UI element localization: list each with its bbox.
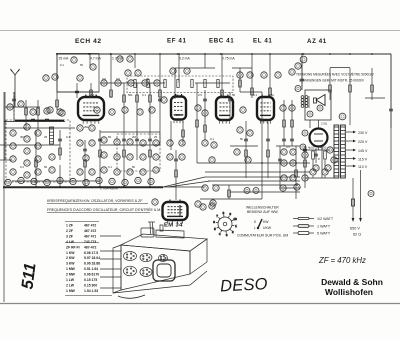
svg-text:ECH 42: ECH 42	[75, 38, 102, 45]
svg-text:KREISFREQUENZEN KW. OSZILLATOR: KREISFREQUENZEN KW. OSZILLATOR, VORKREIS…	[47, 199, 143, 203]
svg-text:TENSIONS MESURÉES AVEC VOLTMÈT: TENSIONS MESURÉES AVEC VOLTMÈTRE 5000Ω/V	[296, 72, 375, 77]
svg-text:2 LW: 2 LW	[66, 283, 75, 287]
svg-text:1 ZF: 1 ZF	[66, 224, 73, 228]
svg-text:4µ50: 4µ50	[308, 146, 315, 150]
svg-text:300: 300	[20, 135, 25, 139]
svg-text:145 V: 145 V	[358, 149, 368, 153]
svg-text:1 LW: 1 LW	[66, 278, 75, 282]
svg-text:1.54 1.53: 1.54 1.53	[84, 289, 98, 293]
svg-text:115 V: 115 V	[358, 157, 368, 161]
svg-text:50: 50	[44, 165, 48, 169]
svg-text:1 MW: 1 MW	[66, 289, 76, 293]
svg-text:EL 41: EL 41	[253, 38, 272, 45]
svg-text:62 Ω: 62 Ω	[353, 233, 361, 237]
svg-text:2 MW: 2 MW	[66, 273, 76, 277]
svg-text:COMMUTATEUR SUR POS. UM: COMMUTATEUR SUR POS. UM	[237, 234, 288, 238]
svg-text:EM 34: EM 34	[164, 223, 183, 229]
svg-text:50: 50	[108, 135, 112, 139]
svg-text:AZ 41: AZ 41	[307, 38, 327, 45]
svg-text:110 V: 110 V	[358, 165, 368, 169]
svg-text:50k: 50k	[128, 93, 133, 97]
svg-text:0.5: 0.5	[198, 93, 202, 97]
svg-text:4.7 mA: 4.7 mA	[90, 57, 101, 61]
svg-text:467 472: 467 472	[84, 229, 96, 233]
svg-text:ZF = 470 kHz: ZF = 470 kHz	[318, 256, 366, 265]
svg-text:1 WATT: 1 WATT	[317, 225, 331, 229]
svg-text:ZF RF FI: ZF RF FI	[66, 245, 80, 249]
svg-text:5.2 mA: 5.2 mA	[179, 57, 190, 61]
svg-text:WELLENSCHALTER: WELLENSCHALTER	[246, 206, 279, 210]
svg-text:0.15 300: 0.15 300	[84, 283, 97, 287]
svg-text:650 V: 650 V	[350, 227, 360, 231]
svg-text:3 ZF: 3 ZF	[66, 234, 73, 238]
svg-text:Dewald & Sohn: Dewald & Sohn	[321, 277, 383, 287]
svg-text:2 ZF: 2 ZF	[66, 229, 73, 233]
svg-text:2.5Ω: 2.5Ω	[321, 122, 327, 126]
svg-text:0.15 175: 0.15 175	[84, 278, 97, 282]
svg-text:50: 50	[232, 93, 236, 97]
svg-text:0.1: 0.1	[210, 137, 214, 141]
svg-text:25: 25	[146, 77, 150, 81]
svg-text:3 KW: 3 KW	[66, 262, 75, 266]
svg-text:0.1: 0.1	[253, 93, 257, 97]
svg-text:Wollishofen: Wollishofen	[325, 287, 373, 297]
svg-text:1.7mA 40mW: 1.7mA 40mW	[100, 187, 118, 191]
svg-text:25: 25	[154, 135, 158, 139]
svg-text:20k: 20k	[84, 125, 89, 129]
svg-text:0.5: 0.5	[116, 77, 120, 81]
svg-text:0.51 1.64: 0.51 1.64	[84, 267, 98, 271]
svg-text:SPANNUNGEN GEM. MIT INSTR. 25: SPANNUNGEN GEM. MIT INSTR. 25 000Ω/V	[299, 79, 365, 83]
svg-text:220 V: 220 V	[358, 140, 368, 144]
svg-text:1 KW: 1 KW	[66, 251, 75, 255]
svg-text:467 472: 467 472	[84, 224, 96, 228]
svg-text:1M: 1M	[102, 77, 107, 81]
svg-text:50: 50	[132, 165, 136, 169]
svg-text:467 471: 467 471	[84, 234, 96, 238]
svg-text:230 V: 230 V	[358, 131, 368, 135]
svg-text:25: 25	[44, 135, 48, 139]
svg-text:FREQUENCES D'ACCORD OSCILLATEU: FREQUENCES D'ACCORD OSCILLATEUR, CIRCUIT…	[47, 207, 164, 212]
svg-text:5.97 18.04: 5.97 18.04	[84, 256, 100, 260]
svg-text:25 mA: 25 mA	[59, 57, 70, 61]
svg-text:1/2 WATT: 1/2 WATT	[317, 217, 334, 221]
svg-text:0.75 mA: 0.75 mA	[222, 57, 235, 61]
svg-text:743 773: 743 773	[84, 240, 96, 244]
svg-text:10: 10	[234, 217, 238, 221]
svg-text:0.1: 0.1	[142, 93, 146, 97]
svg-text:EF 41: EF 41	[167, 38, 187, 45]
svg-text:2 KW: 2 KW	[66, 256, 75, 260]
svg-text:EBC 41: EBC 41	[209, 38, 234, 45]
svg-text:6.06 17.5: 6.06 17.5	[84, 251, 98, 255]
svg-text:2M: 2M	[90, 93, 95, 97]
svg-text:50: 50	[80, 63, 84, 67]
svg-text:BEDIENX AUF WW: BEDIENX AUF WW	[247, 210, 278, 214]
svg-text:2M: 2M	[132, 135, 137, 139]
svg-text:1M: 1M	[176, 113, 181, 117]
svg-text:0.1: 0.1	[108, 165, 112, 169]
svg-text:DESO: DESO	[220, 275, 268, 295]
svg-text:L: L	[254, 226, 256, 230]
svg-text:KW: KW	[263, 220, 269, 224]
svg-text:1 MW: 1 MW	[66, 267, 76, 271]
svg-text:UKW: UKW	[263, 226, 272, 230]
svg-text:467-472: 467-472	[84, 245, 97, 249]
svg-text:0.5: 0.5	[286, 145, 290, 149]
svg-text:6.06 18.88: 6.06 18.88	[84, 262, 100, 266]
svg-text:30k: 30k	[174, 93, 179, 97]
svg-text:4 LW: 4 LW	[66, 240, 75, 244]
svg-text:4µ50: 4µ50	[320, 146, 327, 150]
svg-text:0.06 6170: 0.06 6170	[84, 273, 99, 277]
svg-text:0.1: 0.1	[66, 135, 70, 139]
svg-text:0.1: 0.1	[60, 63, 64, 67]
svg-text:511: 511	[19, 262, 40, 290]
svg-text:5 WATT: 5 WATT	[317, 232, 331, 236]
svg-text:0.2: 0.2	[20, 165, 24, 169]
